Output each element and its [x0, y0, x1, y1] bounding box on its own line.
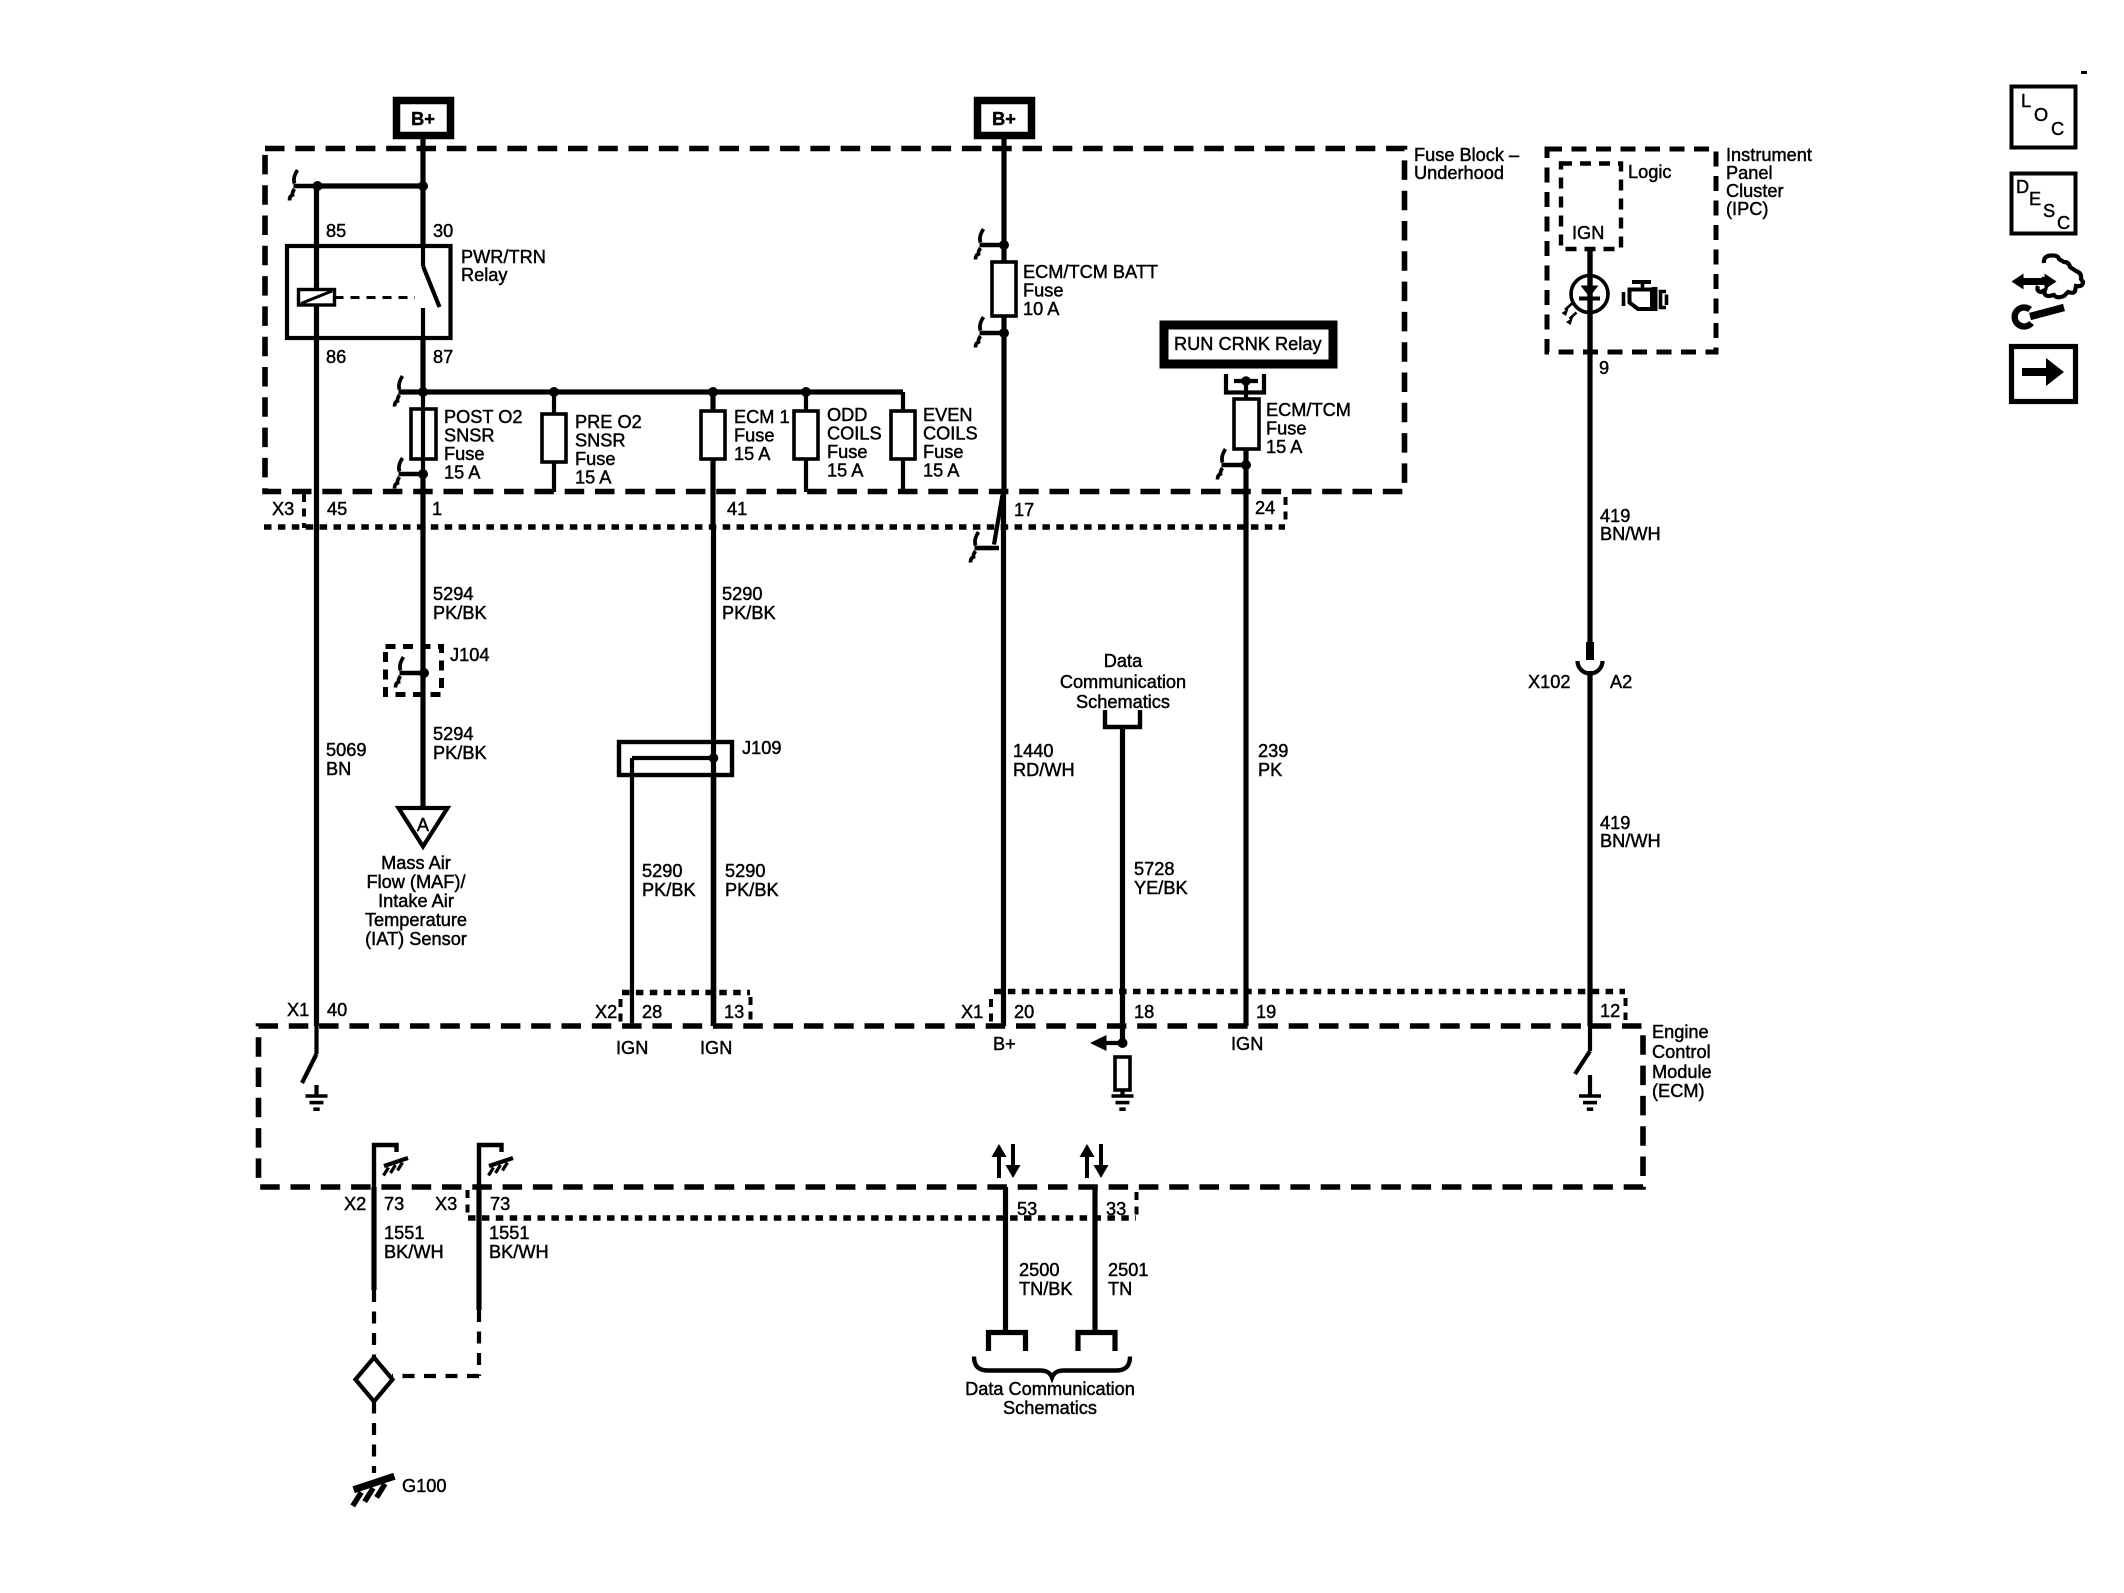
ECM dashed box [259, 1026, 1644, 1187]
svg-text:BK/WH: BK/WH [489, 1242, 549, 1262]
IPC name label [1726, 145, 1812, 219]
engine pictogram [1624, 282, 1667, 311]
ECM name label [1652, 1022, 1712, 1101]
MIL indicator LED [1571, 276, 1608, 313]
junction node bus/ECM1 [708, 387, 718, 397]
ECM internal switch pin 40 [302, 1026, 317, 1096]
wire relay to ECM/TCM fuse [1244, 381, 1248, 399]
svg-text:BK/WH: BK/WH [384, 1242, 444, 1262]
svg-text:28: 28 [642, 1002, 662, 1022]
wire data comm down to ECM pin 18 [1120, 727, 1125, 1043]
ECM/TCM fuse [1234, 399, 1259, 492]
svg-text:D: D [2016, 177, 2029, 197]
svg-text:Logic: Logic [1628, 162, 1671, 182]
svg-text:C: C [2051, 119, 2064, 139]
brace under terminals [974, 1357, 1130, 1378]
svg-text:X3: X3 [272, 499, 294, 519]
splice J104 dashed box [386, 647, 442, 695]
svg-text:SNSR: SNSR [575, 431, 626, 451]
ECM/TCM fuse label [1266, 400, 1351, 457]
wire POST O2 fuse to X3 pin 1 [420, 474, 425, 527]
circuit 419 BN/WH label (lower) [1600, 813, 1661, 851]
LOC icon box [2012, 87, 2076, 148]
B+ power symbol box (left) [397, 101, 451, 136]
svg-text:B+: B+ [993, 1034, 1016, 1054]
connector X1 separator [989, 999, 993, 1023]
J109 wire through [711, 742, 716, 775]
wire IPC to X102 [1587, 352, 1592, 644]
junction node at relay socket [1241, 376, 1251, 386]
wire J109 left branch to ECM X2 pin 28 [630, 758, 634, 1026]
svg-text:IGN: IGN [1572, 223, 1604, 243]
svg-text:5290: 5290 [642, 861, 682, 881]
svg-text:30: 30 [433, 221, 453, 241]
ODD COILS fuse label [827, 405, 882, 481]
connector X2 face dotted line (J109 wires) [622, 990, 750, 996]
relay coil [299, 290, 335, 306]
fuse bus wire [399, 389, 903, 394]
svg-text:1551: 1551 [489, 1223, 529, 1243]
page speck [2081, 71, 2087, 74]
svg-text:5290: 5290 [725, 861, 765, 881]
junction node at B+ wire [418, 181, 428, 191]
dashed continuation to splice [372, 1290, 376, 1357]
wire horizontal to relay pin 85 [317, 183, 424, 188]
relay switch contact arm [423, 248, 440, 338]
circuit 2500 TN/BK label [1019, 1260, 1073, 1299]
svg-text:BN: BN [326, 759, 351, 779]
svg-text:E: E [2029, 189, 2041, 209]
svg-text:10 A: 10 A [1023, 299, 1060, 319]
splice pack J109 box [619, 742, 732, 775]
ECM serial data arrows pin 53 [992, 1144, 1021, 1178]
PRE O2 fuse label [575, 412, 642, 488]
svg-text:ODD: ODD [827, 405, 867, 425]
svg-text:Fuse: Fuse [923, 442, 963, 462]
dashed wire splice to G100 [372, 1402, 376, 1474]
svg-text:Fuse: Fuse [444, 444, 484, 464]
svg-text:J104: J104 [450, 645, 489, 665]
svg-text:COILS: COILS [827, 424, 882, 444]
svg-text:1440: 1440 [1013, 741, 1053, 761]
inline connector X102 socket [1578, 661, 1603, 673]
svg-text:1551: 1551 [384, 1223, 424, 1243]
svg-text:PK/BK: PK/BK [725, 880, 779, 900]
svg-text:15 A: 15 A [923, 461, 960, 481]
wire IGN to LED [1587, 249, 1592, 352]
svg-text:Fuse Block –: Fuse Block – [1414, 145, 1520, 165]
svg-text:YE/BK: YE/BK [1134, 878, 1188, 898]
diagnostic hand/wrench icon [2012, 255, 2084, 326]
svg-text:PK/BK: PK/BK [642, 880, 696, 900]
ECM internal switch pin 12 [1575, 1026, 1590, 1096]
svg-text:Instrument: Instrument [1726, 145, 1812, 165]
svg-text:5069: 5069 [326, 740, 366, 760]
svg-text:Data Communication: Data Communication [965, 1379, 1135, 1399]
svg-text:41: 41 [727, 499, 747, 519]
svg-text:15 A: 15 A [827, 461, 864, 481]
svg-text:ECM/TCM BATT: ECM/TCM BATT [1023, 262, 1158, 282]
svg-text:15 A: 15 A [734, 444, 771, 464]
wire ECM pin 33 to DLC terminal [1092, 1187, 1097, 1332]
connector X3 separator [302, 494, 306, 528]
svg-text:9: 9 [1599, 358, 1609, 378]
svg-text:40: 40 [327, 1000, 347, 1020]
clip at pin 17 jog [971, 532, 1000, 563]
svg-text:1: 1 [432, 499, 442, 519]
svg-text:Data: Data [1104, 651, 1143, 671]
svg-text:X3: X3 [435, 1194, 457, 1214]
ECM internal ground pin 40 [306, 1096, 328, 1109]
circuit 1551 BK/WH label (X3) [489, 1223, 549, 1262]
junction node below BATT fuse [999, 328, 1009, 338]
svg-text:24: 24 [1255, 498, 1275, 518]
svg-text:12: 12 [1600, 1001, 1620, 1021]
ECM/TCM BATT fuse label [1023, 262, 1158, 319]
ODD COILS fuse [794, 392, 818, 492]
svg-text:ECM/TCM: ECM/TCM [1266, 400, 1351, 420]
ECM internal ground stub X3-73 [479, 1145, 513, 1187]
junction node below ECM/TCM fuse [1241, 460, 1251, 470]
clip above ECM/TCM BATT fuse [976, 229, 1005, 260]
ECM internal arrow pin 18 [1090, 1035, 1128, 1051]
junction node bus/PRE O2 [549, 387, 559, 397]
wire pin17 down to ECM pin 20 [1001, 492, 1006, 1026]
svg-text:Intake Air: Intake Air [378, 891, 454, 911]
circuit 1551 BK/WH label (X2) [384, 1223, 444, 1262]
svg-text:BN/WH: BN/WH [1600, 831, 1661, 851]
ECM internal resistor pin 18 [1115, 1057, 1130, 1096]
svg-text:EVEN: EVEN [923, 405, 973, 425]
ECM 1 fuse label [734, 407, 790, 464]
LED light emission arrows [1562, 304, 1577, 326]
svg-text:Fuse: Fuse [1023, 281, 1063, 301]
svg-text:Flow (MAF)/: Flow (MAF)/ [366, 872, 466, 892]
svg-text:(ECM): (ECM) [1652, 1081, 1705, 1101]
svg-text:RUN CRNK Relay: RUN CRNK Relay [1174, 334, 1322, 354]
svg-text:BN/WH: BN/WH [1600, 524, 1661, 544]
dashed continuation and turn to splice [392, 1310, 479, 1376]
svg-text:O: O [2034, 105, 2048, 125]
connector clip at left of pin85 wire [290, 170, 319, 201]
circuit 5294 PK/BK label (lower) [433, 724, 487, 763]
svg-text:2500: 2500 [1019, 1260, 1059, 1280]
svg-text:15 A: 15 A [1266, 437, 1303, 457]
wire pin1 down to J104 [420, 527, 425, 694]
svg-text:Fuse: Fuse [734, 426, 774, 446]
svg-text:IGN: IGN [700, 1038, 732, 1058]
circuit 5728 YE/BK label [1134, 859, 1188, 898]
svg-text:A2: A2 [1610, 672, 1632, 692]
EVEN COILS fuse label [923, 405, 978, 481]
svg-text:87: 87 [433, 347, 453, 367]
circuit 1440 RD/WH label [1013, 741, 1075, 780]
svg-text:73: 73 [384, 1194, 404, 1214]
svg-text:IGN: IGN [616, 1038, 648, 1058]
clip at left end of fuse bus [395, 376, 424, 407]
ECM internal ground stub X2-73 [374, 1145, 408, 1187]
svg-text:33: 33 [1106, 1199, 1126, 1219]
svg-text:Cluster: Cluster [1726, 181, 1784, 201]
svg-text:X102: X102 [1528, 672, 1570, 692]
svg-text:TN: TN [1108, 1279, 1132, 1299]
svg-text:73: 73 [490, 1194, 510, 1214]
wire relay pin 86 down to ECM pin 40 [314, 305, 319, 1026]
relay socket terminal bar [1234, 379, 1258, 383]
svg-text:PK: PK [1258, 760, 1282, 780]
connector X2 right separator [749, 997, 753, 1023]
circuit 5290 PK/BK label (right branch) [725, 861, 779, 900]
svg-text:L: L [2021, 91, 2031, 111]
relay actuator dashed link [335, 296, 416, 299]
J104 clip [396, 657, 425, 688]
circuit 5294 PK/BK label (upper) [433, 584, 487, 623]
svg-text:SNSR: SNSR [444, 426, 495, 446]
svg-text:13: 13 [724, 1002, 744, 1022]
data communication schematics pointer label [1060, 651, 1186, 712]
svg-text:18: 18 [1134, 1002, 1154, 1022]
inline connector X102 male terminal [1586, 642, 1594, 660]
svg-text:15 A: 15 A [575, 468, 612, 488]
clip below POST O2 fuse [395, 458, 424, 489]
J104 splice node [419, 668, 429, 678]
circuit 419 BN/WH label (upper) [1600, 506, 1661, 544]
PWR/TRN relay label [461, 247, 546, 285]
svg-text:PK/BK: PK/BK [433, 743, 487, 763]
svg-text:PK/BK: PK/BK [433, 603, 487, 623]
wire relay pin 87 down to fuse bus [420, 338, 425, 392]
svg-text:20: 20 [1014, 1002, 1034, 1022]
ECM internal ground pin 12 [1579, 1096, 1601, 1109]
svg-text:15 A: 15 A [444, 463, 481, 483]
svg-text:ECM 1: ECM 1 [734, 407, 790, 427]
data comm bracket [1105, 710, 1140, 727]
ECM/TCM BATT fuse [992, 262, 1016, 492]
wire pass jog at pin 17 [975, 495, 1003, 548]
data communication schematics bottom label [965, 1379, 1135, 1418]
ECM 1 fuse [701, 392, 725, 527]
svg-text:PK/BK: PK/BK [722, 603, 776, 623]
connector bottom face dotted line [468, 1215, 1136, 1221]
J109 internal bar [632, 756, 714, 760]
svg-text:X2: X2 [344, 1194, 366, 1214]
DESC icon box [2012, 174, 2076, 234]
svg-text:17: 17 [1014, 500, 1034, 520]
svg-text:5290: 5290 [722, 584, 762, 604]
circuit 2501 TN label [1108, 1260, 1148, 1299]
svg-text:A: A [417, 815, 430, 835]
clip below ECM/TCM fuse [1218, 449, 1247, 480]
svg-text:419: 419 [1600, 813, 1630, 833]
wire J104 to MAF sensor [420, 694, 425, 808]
svg-text:85: 85 [326, 221, 346, 241]
svg-text:POST O2: POST O2 [444, 407, 523, 427]
ground splice diamond [356, 1358, 393, 1402]
svg-text:PRE O2: PRE O2 [575, 412, 642, 432]
wire B+ down to ECM/TCM BATT fuse [1001, 139, 1006, 262]
svg-text:X2: X2 [595, 1002, 617, 1022]
wire B+ to relay pin 30 [420, 139, 425, 248]
junction node below POST O2 fuse [418, 469, 428, 479]
svg-text:TN/BK: TN/BK [1019, 1279, 1073, 1299]
wire ECM X2-73 ground lead [371, 1187, 376, 1290]
circuit 5290 PK/BK label (left branch) [642, 861, 696, 900]
svg-text:Relay: Relay [461, 265, 508, 285]
ECM serial data arrows pin 33 [1080, 1144, 1109, 1178]
svg-text:Fuse: Fuse [827, 442, 867, 462]
svg-text:19: 19 [1256, 1002, 1276, 1022]
J109 splice node [709, 753, 719, 763]
svg-text:Module: Module [1652, 1062, 1712, 1082]
svg-text:X1: X1 [287, 1000, 309, 1020]
next page arrow icon box [2012, 347, 2076, 402]
circuit 5290 PK/BK label (upper) [722, 584, 776, 623]
junction node at pin85 wire corner [313, 181, 323, 191]
svg-text:239: 239 [1258, 741, 1288, 761]
svg-text:Mass Air: Mass Air [381, 853, 451, 873]
svg-text:B+: B+ [411, 109, 435, 129]
wire J109 down to ECM X2 pin 13 [711, 775, 717, 1026]
svg-text:2501: 2501 [1108, 1260, 1148, 1280]
EVEN COILS fuse [891, 392, 915, 492]
svg-text:X1: X1 [961, 1002, 983, 1022]
svg-text:5728: 5728 [1134, 859, 1174, 879]
svg-text:53: 53 [1017, 1199, 1037, 1219]
PRE O2 SNSR fuse [542, 392, 566, 492]
ECM internal ground pin 18 [1112, 1096, 1134, 1109]
connector X1 face dotted line [994, 989, 1625, 995]
svg-text:86: 86 [326, 347, 346, 367]
svg-text:G100: G100 [402, 1476, 447, 1496]
svg-text:Fuse: Fuse [1266, 419, 1306, 439]
wire ECM pin 53 to DLC terminal [1003, 1187, 1008, 1332]
relay socket bracket [1226, 374, 1264, 393]
clip below ECM/TCM BATT fuse [976, 317, 1005, 348]
circuit 5069 BN label [326, 740, 366, 779]
svg-text:IGN: IGN [1231, 1034, 1263, 1054]
connector X3 bottom separator [466, 1190, 470, 1218]
svg-text:5294: 5294 [433, 584, 473, 604]
wire down to relay pin 85 [314, 186, 319, 290]
svg-text:COILS: COILS [923, 424, 978, 444]
svg-text:S: S [2043, 201, 2055, 221]
circuit 239 PK label [1258, 741, 1288, 780]
svg-text:Fuse: Fuse [575, 449, 615, 469]
connector X2 left separator [619, 999, 623, 1023]
RUN CRNK Relay bold box [1164, 325, 1333, 364]
wire ECM X3-73 ground lead [476, 1187, 481, 1310]
svg-text:Schematics: Schematics [1003, 1398, 1097, 1418]
wire X102 to ECM pin 12 [1587, 671, 1592, 1026]
junction node above BATT fuse [999, 240, 1009, 250]
IPC dashed box [1547, 149, 1716, 352]
connector X3 right separator [1284, 497, 1288, 523]
svg-text:J109: J109 [742, 738, 781, 758]
terminal symbol wire 2501 [1078, 1333, 1115, 1352]
svg-text:Control: Control [1652, 1042, 1711, 1062]
connector X3 face dotted line [264, 524, 1285, 530]
svg-text:C: C [2057, 213, 2070, 233]
POST O2 SNSR fuse [411, 392, 436, 474]
label Fuse Block - Underhood [1414, 145, 1520, 183]
G100 chassis ground [353, 1476, 395, 1506]
PWR/TRN relay box [287, 246, 451, 338]
svg-text:Schematics: Schematics [1076, 692, 1170, 712]
svg-text:B+: B+ [992, 109, 1016, 129]
svg-text:RD/WH: RD/WH [1013, 760, 1075, 780]
wire pin 41 down to J109 [711, 527, 716, 742]
connector bottom right separator [1135, 1192, 1139, 1218]
svg-text:419: 419 [1600, 506, 1630, 526]
IGN logic dashed box [1561, 164, 1621, 250]
svg-text:(IPC): (IPC) [1726, 199, 1768, 219]
MAF sensor triangle terminal A [399, 808, 448, 847]
wire pin 24 down to ECM pin 19 [1243, 492, 1248, 1026]
connector X1 right separator [1624, 998, 1628, 1020]
svg-text:Panel: Panel [1726, 163, 1773, 183]
svg-text:5294: 5294 [433, 724, 473, 744]
junction node bus/POST O2 [418, 387, 428, 397]
svg-text:Communication: Communication [1060, 672, 1186, 692]
junction node bus/ODD [801, 387, 811, 397]
terminal symbol wire 2500 [989, 1333, 1026, 1352]
POST O2 fuse label [444, 407, 523, 483]
B+ power symbol box (middle) [978, 101, 1032, 136]
svg-text:45: 45 [327, 499, 347, 519]
svg-text:(IAT) Sensor: (IAT) Sensor [365, 929, 467, 949]
svg-text:Underhood: Underhood [1414, 163, 1504, 183]
svg-text:PWR/TRN: PWR/TRN [461, 247, 546, 267]
svg-text:Temperature: Temperature [365, 910, 467, 930]
svg-text:Engine: Engine [1652, 1022, 1709, 1042]
MAF/IAT sensor label [365, 853, 467, 949]
fuse block underhood dashed box [265, 149, 1405, 492]
